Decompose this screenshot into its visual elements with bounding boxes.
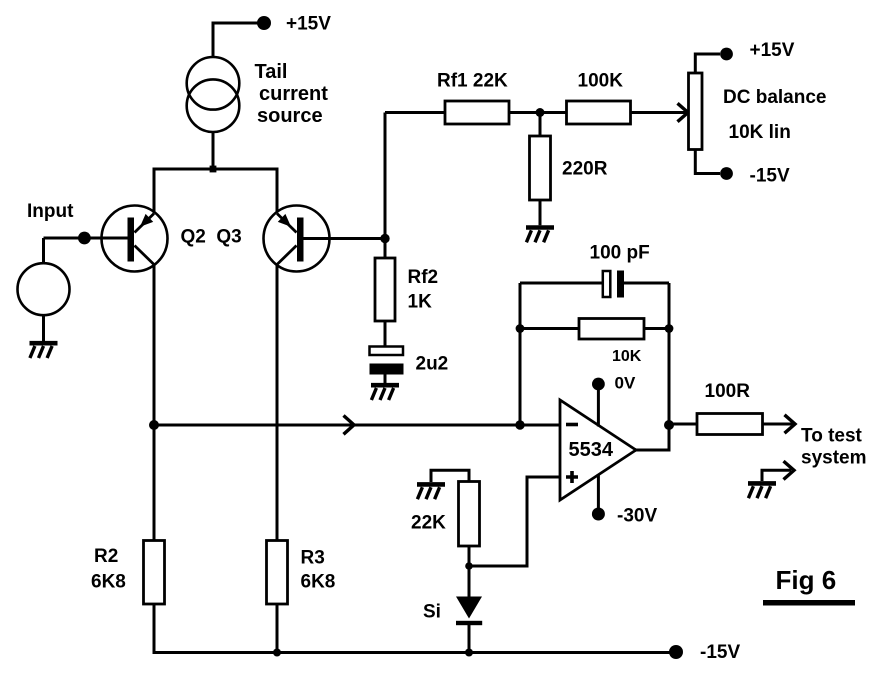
node Q3 base junction	[380, 234, 389, 243]
transistor Q3 collector diagonal	[277, 246, 297, 265]
svg-text:DC balance: DC balance	[723, 87, 826, 108]
capacitor C 2u2 plate top	[370, 347, 404, 356]
wire Q2 collector down	[153, 264, 156, 541]
transistor Q2 circle	[102, 206, 168, 272]
label Fig 6 underline	[763, 600, 855, 606]
svg-text:source: source	[257, 105, 323, 127]
wire input to Q2 base	[44, 237, 128, 240]
resistor Rf1 22K	[445, 101, 509, 124]
resistor 100R	[697, 414, 763, 435]
wire 22K bottom	[468, 546, 471, 597]
wire 220R to ground	[539, 200, 542, 225]
resistor 100K	[567, 101, 631, 124]
svg-text:2u2: 2u2	[416, 354, 449, 375]
transistor Q3 base bar	[297, 218, 304, 262]
svg-text:22K: 22K	[411, 513, 446, 534]
svg-text:10K: 10K	[612, 348, 642, 365]
svg-text:Tail: Tail	[255, 61, 288, 83]
potentiometer DC balance body	[689, 73, 703, 150]
node +15V top terminal	[257, 16, 271, 30]
transistor Q3 emitter arrow	[278, 214, 291, 227]
label op-amp minus	[566, 423, 578, 427]
wire pot top to +15V	[695, 54, 720, 73]
ground 220R	[526, 228, 554, 243]
node -15V rail terminal	[669, 645, 683, 659]
svg-text:To test: To test	[801, 426, 863, 447]
wire -30V supply	[597, 474, 600, 511]
transistor Q2 emitter arrow	[140, 214, 153, 227]
svg-text:6K8: 6K8	[301, 572, 336, 593]
wire 10K row left	[520, 327, 579, 330]
svg-text:system: system	[801, 448, 867, 469]
wire collector to op-amp inverting input	[154, 424, 560, 427]
svg-text:Si: Si	[423, 602, 441, 623]
wire pot bottom to -15V	[695, 150, 720, 174]
node diode rail junction	[465, 649, 473, 657]
wire output to 100R	[669, 423, 697, 426]
wire R2 to -15V rail	[154, 604, 676, 653]
ground 22K	[417, 484, 445, 499]
svg-text:Q2 Q3: Q2 Q3	[181, 227, 242, 248]
wire +15V top lead	[213, 23, 259, 58]
svg-text:100R: 100R	[705, 381, 751, 402]
ground 2u2	[371, 385, 399, 400]
svg-text:6K8: 6K8	[91, 572, 126, 593]
node 0V terminal	[592, 378, 605, 391]
node 10K right junction	[665, 324, 674, 333]
node Q2 collector takeoff	[149, 420, 159, 430]
svg-text:100 pF: 100 pF	[590, 243, 650, 264]
wire junction to op-amp plus input	[469, 477, 560, 566]
svg-text:5534: 5534	[569, 439, 614, 461]
node R3 rail junction	[273, 649, 281, 657]
transistor Q2 base bar	[128, 218, 135, 262]
label op-amp plus	[566, 471, 578, 483]
capacitor C 100pF plate left	[603, 271, 611, 297]
resistor 10K feedback	[579, 319, 644, 340]
svg-text:Input: Input	[27, 201, 74, 222]
wire cap row left	[520, 282, 603, 285]
svg-text:+15V: +15V	[286, 14, 331, 35]
wire tail down	[212, 132, 215, 169]
capacitor C 100pF plate right	[617, 271, 624, 298]
capacitor C 2u2 plate bottom	[370, 364, 404, 375]
wire feedback loop left vertical	[519, 283, 522, 425]
wire 220R top	[539, 113, 542, 137]
wire 2u2 to ground	[384, 375, 387, 384]
ground test system	[748, 483, 776, 498]
resistor R3	[267, 541, 288, 605]
wire 0V supply	[597, 387, 600, 427]
node pot -15V terminal	[720, 167, 733, 180]
transistor Q3 emitter diagonal	[277, 214, 297, 233]
svg-text:10K lin: 10K lin	[729, 122, 791, 143]
transistor Q3 circle	[264, 206, 330, 272]
svg-text:+15V: +15V	[750, 40, 795, 61]
wire 100R to output arrow	[763, 423, 794, 426]
svg-text:R3: R3	[301, 548, 325, 569]
svg-text:Rf2: Rf2	[408, 267, 439, 288]
svg-text:1K: 1K	[408, 292, 433, 313]
svg-text:0V: 0V	[615, 374, 636, 393]
transistor Q2 collector diagonal	[135, 246, 155, 265]
diode D1 cathode bar	[456, 621, 482, 625]
wire feedback vertical	[384, 113, 387, 259]
wire Rf2 to 2u2	[384, 321, 387, 347]
wire 100K to pot wiper	[631, 111, 687, 114]
wire emitter rail	[154, 169, 277, 213]
node inverting input junction	[515, 420, 524, 429]
resistor 22K	[459, 482, 480, 547]
diode D1 Si triangle	[456, 597, 482, 619]
wire Rf1 to 100K	[509, 111, 567, 114]
resistor Rf2 1K	[375, 258, 395, 321]
wire R3 to rail	[276, 604, 279, 653]
current source CS1 circle upper	[187, 57, 240, 110]
wire to Rf1	[385, 111, 445, 114]
wire 10K row right	[644, 327, 669, 330]
arrow pot wiper	[678, 103, 689, 121]
svg-text:-15V: -15V	[750, 165, 790, 186]
wire cap row right	[624, 282, 669, 285]
wire feedback loop right vertical	[668, 283, 671, 425]
source V1 input generator circle	[18, 263, 70, 315]
wire Q3 collector down	[276, 264, 279, 541]
node output junction	[664, 420, 674, 430]
arrow ground return	[784, 461, 795, 479]
svg-text:Fig 6: Fig 6	[776, 565, 837, 595]
svg-text:100K: 100K	[578, 71, 624, 92]
op-amp U1 5534 triangle	[560, 400, 636, 500]
wire diode to rail	[468, 625, 471, 653]
resistor R2	[144, 541, 165, 605]
arrow signal direction	[344, 416, 355, 435]
ground input	[30, 343, 58, 358]
wire 22K top to ground	[431, 470, 469, 482]
node pot +15V terminal	[720, 48, 733, 61]
svg-text:current: current	[259, 83, 328, 105]
svg-text:220R: 220R	[562, 159, 608, 180]
svg-text:Rf1 22K: Rf1 22K	[437, 71, 508, 92]
resistor 220R	[530, 136, 551, 200]
node tail junction square	[210, 166, 217, 173]
wire Q3 base to feedback node	[304, 237, 386, 240]
node -30V terminal	[592, 508, 605, 521]
transistor Q2 emitter diagonal	[135, 214, 155, 233]
svg-text:-30V: -30V	[617, 506, 657, 527]
node Rf1/100K junction	[536, 108, 545, 117]
node input junction	[78, 232, 91, 245]
node diode junction	[465, 562, 473, 570]
svg-text:R2: R2	[94, 546, 118, 567]
arrow to test system	[785, 415, 796, 433]
wire op-amp output	[636, 425, 669, 450]
current source CS1 circle lower	[187, 79, 240, 132]
wire input down to source	[42, 238, 45, 263]
svg-text:-15V: -15V	[700, 642, 740, 663]
wire source to ground	[42, 315, 45, 341]
node 10K left junction	[516, 324, 525, 333]
wire ground arrow stub	[762, 470, 791, 481]
